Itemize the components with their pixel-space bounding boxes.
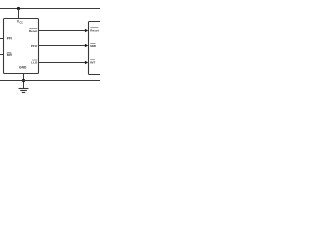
node Vcc junction dot	[17, 7, 20, 10]
svg-text:CC: CC	[19, 21, 23, 24]
ground symbol	[19, 89, 29, 93]
wire bottom ground rail	[0, 80, 100, 82]
arrowhead NMI	[85, 44, 88, 48]
wire LLO to INT	[39, 62, 86, 64]
wire RESET to uP	[39, 30, 86, 32]
svg-text:NMI: NMI	[90, 44, 96, 48]
pin label RESET (overline)	[29, 28, 37, 33]
wire GND stem	[23, 74, 25, 89]
svg-text:Reset: Reset	[29, 29, 37, 33]
svg-text:GND: GND	[19, 66, 27, 70]
pin label MR (overline)	[7, 52, 13, 57]
svg-text:MR: MR	[7, 53, 13, 57]
pin label uP RESET (overline)	[90, 28, 98, 33]
svg-text:Reset: Reset	[90, 28, 98, 32]
wire Vcc top rail	[0, 8, 100, 10]
pin label uP NMI (overline)	[90, 43, 96, 48]
wire PFO to NMI	[39, 45, 86, 47]
wire Vcc pin drop	[18, 9, 20, 19]
pin label uP INT (overline)	[90, 60, 95, 65]
arrowhead RESET	[85, 29, 88, 33]
svg-text:INT: INT	[90, 60, 95, 64]
pin label VCC	[17, 19, 23, 24]
pin label LLO (overline)	[31, 60, 38, 65]
supervisor IC U1	[4, 19, 39, 74]
wire PFI input stub	[0, 38, 4, 40]
microprocessor U2	[89, 22, 103, 75]
svg-text:PFO: PFO	[31, 44, 38, 48]
arrowhead INT	[85, 61, 88, 65]
wire MR input stub	[0, 54, 4, 56]
svg-text:LLO: LLO	[31, 61, 38, 65]
svg-text:PFI: PFI	[7, 37, 12, 41]
node GND rail junction dot	[22, 79, 25, 82]
